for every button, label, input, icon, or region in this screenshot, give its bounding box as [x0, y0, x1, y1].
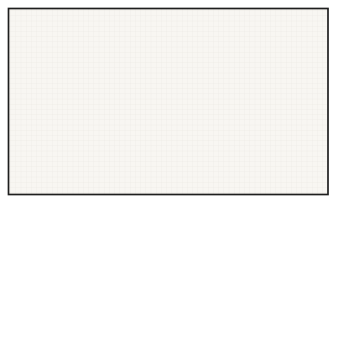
sheet frame — [9, 9, 329, 195]
schematic sheet — [9, 9, 329, 195]
